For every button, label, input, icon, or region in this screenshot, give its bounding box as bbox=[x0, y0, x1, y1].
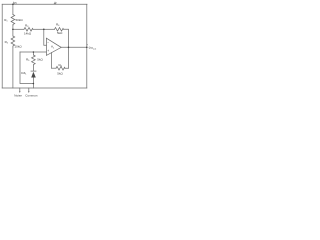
svg-text:50kΩ: 50kΩ bbox=[16, 18, 24, 22]
svg-text:14kΩ: 14kΩ bbox=[24, 32, 32, 36]
svg-text:5kΩ: 5kΩ bbox=[37, 58, 43, 62]
svg-text:−: − bbox=[47, 41, 49, 45]
svg-text:5kΩ: 5kΩ bbox=[57, 31, 63, 35]
svg-text:5kΩ: 5kΩ bbox=[57, 72, 63, 76]
svg-text:10kΩ: 10kΩ bbox=[15, 44, 23, 48]
svg-text:Common: Common bbox=[25, 94, 38, 98]
svg-text:+: + bbox=[47, 49, 49, 53]
svg-text:Noise: Noise bbox=[14, 94, 22, 98]
